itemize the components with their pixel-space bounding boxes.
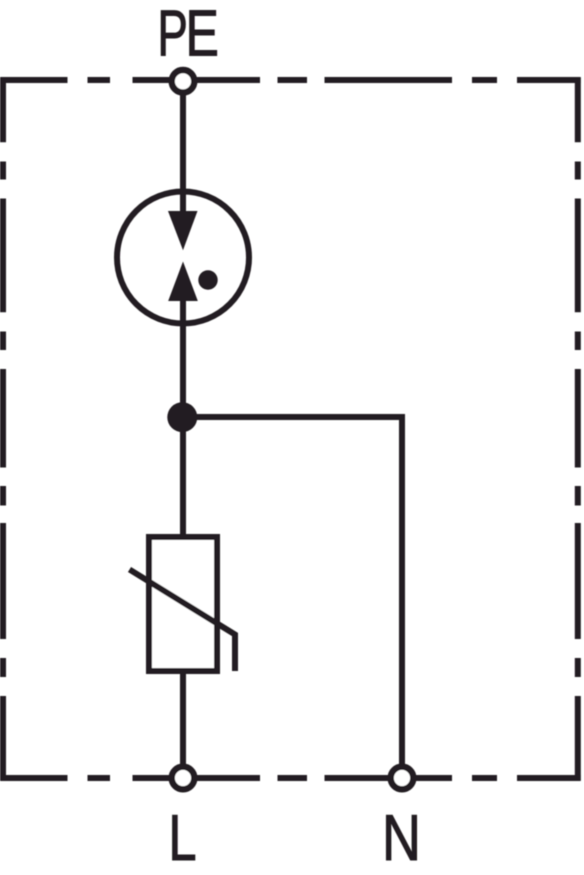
node A junction — [167, 402, 197, 432]
terminal N — [391, 767, 414, 790]
varistor RV1 diagonal stroke — [130, 570, 236, 672]
terminal PE — [172, 70, 195, 93]
wire node A to terminal N (branch) — [183, 417, 402, 766]
wire varistor to terminal L — [180, 671, 186, 766]
svg-text:P: P — [157, 0, 187, 70]
varistor RV1 body — [149, 537, 217, 671]
svg-text:L: L — [168, 802, 196, 874]
enclosure border bottom (dashed) — [0, 775, 580, 781]
enclosure border left (dashed) — [0, 77, 6, 781]
enclosure border right (dashed) — [575, 77, 581, 781]
wire spark gap to node A — [180, 299, 186, 417]
spark gap trigger dot — [198, 270, 217, 289]
wire node A to varistor — [180, 417, 186, 537]
spark gap F1 (triggered spark gap) body circle — [117, 192, 249, 324]
svg-text:N: N — [382, 801, 421, 874]
wire PE terminal to spark gap — [180, 90, 186, 214]
enclosure border top (dashed) — [0, 77, 580, 83]
spark gap electrode arrow up — [168, 262, 198, 302]
svg-text:E: E — [186, 0, 219, 70]
spark gap electrode arrow down — [168, 211, 198, 250]
terminal L — [172, 767, 195, 790]
